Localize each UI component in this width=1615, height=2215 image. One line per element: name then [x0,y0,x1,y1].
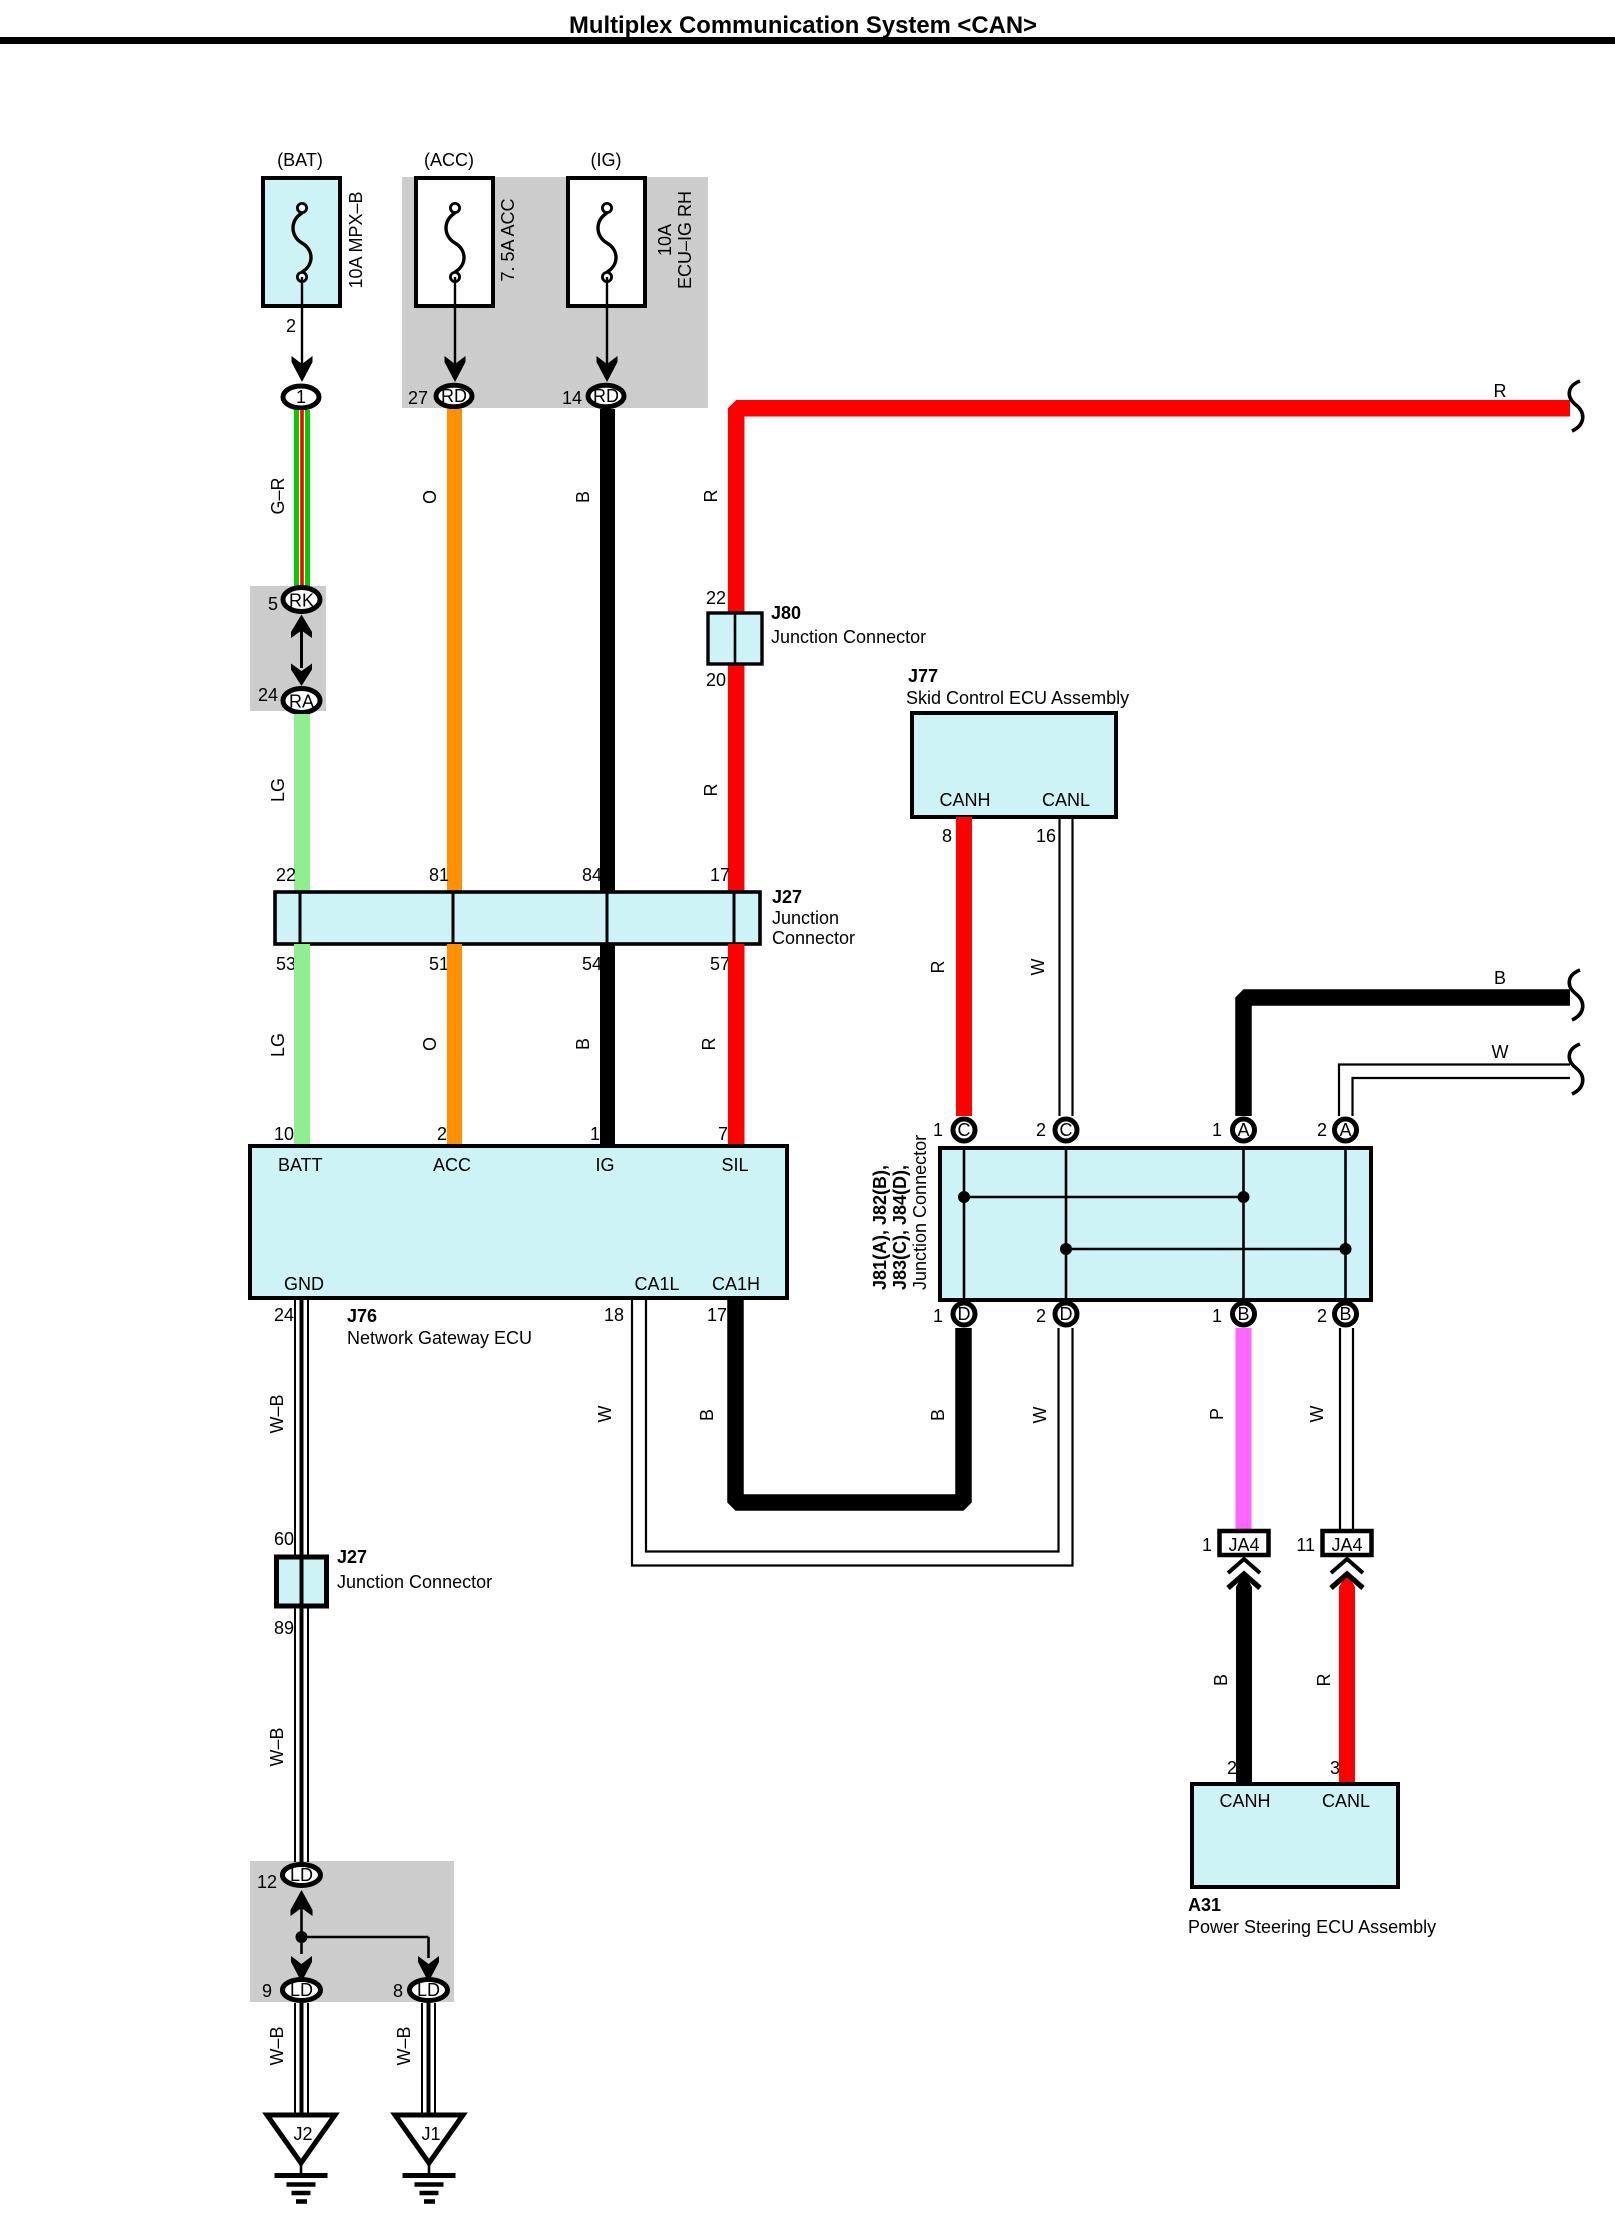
svg-text:18: 18 [604,1305,624,1325]
J27 bar divider at B wire [606,892,609,944]
svg-text:R: R [701,490,721,503]
ground J1 symbol [428,2163,431,2175]
svg-text:Skid Control ECU Assembly: Skid Control ECU Assembly [906,688,1129,708]
terminal LD oval (right) [410,1980,448,2001]
splice arrows between RK and RA [291,615,312,639]
gray block RK/RA [250,586,326,711]
svg-text:CANL: CANL [1042,790,1090,810]
wire B bar to J76 [600,944,615,1146]
terminal RK oval [283,588,320,612]
svg-text:W–B: W–B [267,1394,287,1433]
svg-text:10: 10 [274,1124,294,1144]
svg-text:Junction Connector: Junction Connector [337,1572,492,1592]
svg-text:ECU–IG RH: ECU–IG RH [675,191,695,289]
internal wire C2-D2 [1065,1148,1068,1300]
ECU J77 box [912,713,1116,817]
svg-text:R: R [701,784,721,797]
svg-text:10A: 10A [655,224,675,256]
fuse BAT symbol [293,213,311,272]
svg-text:J80: J80 [771,603,801,623]
internal wire A2-B2 [1344,1148,1347,1300]
svg-text:(BAT): (BAT) [277,150,323,170]
splice arrow down into LD 9 [291,1956,312,1982]
connector JA4 (left) box [1220,1531,1269,1555]
svg-text:B: B [697,1409,717,1421]
gray block LD splice [250,1861,454,2002]
svg-text:9: 9 [262,1981,272,2001]
wire fuse IG to terminal 14 [606,277,608,372]
svg-text:C: C [1060,1120,1073,1140]
svg-text:24: 24 [274,1305,294,1325]
svg-text:W: W [1030,1407,1050,1424]
svg-text:SIL: SIL [721,1155,748,1175]
svg-text:17: 17 [707,1305,727,1325]
break squiggle red wire [1569,381,1582,431]
J27 bar divider at O wire [452,892,455,944]
wire W-B from J76 GND down [295,1298,308,1862]
svg-text:J27: J27 [337,1547,367,1567]
break squiggle white wire [1569,1044,1582,1094]
svg-text:8: 8 [393,1981,403,2001]
svg-text:2: 2 [437,1124,447,1144]
svg-text:LG: LG [268,1033,288,1057]
svg-text:R: R [928,961,948,974]
svg-text:10A MPX–B: 10A MPX–B [346,191,366,288]
svg-text:Power Steering ECU Assembly: Power Steering ECU Assembly [1188,1917,1436,1937]
svg-text:CANH: CANH [1219,1791,1270,1811]
svg-text:22: 22 [706,588,726,608]
splice arrow up into LD [291,1890,313,1916]
svg-text:1: 1 [933,1120,943,1140]
svg-text:22: 22 [276,865,296,885]
svg-text:P: P [1207,1408,1227,1420]
svg-text:20: 20 [706,670,726,690]
fuse ACC box [416,178,493,306]
svg-text:(IG): (IG) [591,150,622,170]
svg-text:81: 81 [429,865,449,885]
svg-text:57: 57 [710,954,730,974]
junction connector J27 bar [275,892,760,944]
svg-text:CANH: CANH [939,790,990,810]
svg-text:Connector: Connector [772,928,855,948]
terminal A2 circle [1335,1119,1357,1141]
svg-text:1: 1 [296,387,306,407]
svg-text:B: B [1339,1304,1351,1324]
svg-text:W: W [1028,959,1048,976]
svg-text:16: 16 [1036,826,1056,846]
svg-text:B: B [1494,968,1506,988]
svg-text:12: 12 [257,1872,277,1892]
svg-text:5: 5 [268,594,278,614]
ECU J76 box [250,1146,787,1298]
terminal C2 circle [1055,1119,1077,1141]
svg-text:JA4: JA4 [1228,1535,1259,1555]
svg-text:RA: RA [289,692,314,712]
svg-text:CA1H: CA1H [712,1274,760,1294]
internal bus C1 to A1 [964,1196,1244,1199]
svg-text:51: 51 [429,954,449,974]
svg-text:CA1L: CA1L [634,1274,679,1294]
svg-text:Junction Connector: Junction Connector [771,627,926,647]
wire W J77 CANL to C2 [1060,817,1073,1116]
wire R JA4 to A31 CANL [1339,1572,1355,1784]
svg-text:G–R: G–R [268,477,288,514]
svg-text:W: W [1307,1406,1327,1423]
fuse IG box [568,178,645,306]
ground J2 triangle [267,2115,335,2163]
svg-text:7: 7 [718,1124,728,1144]
svg-text:IG: IG [595,1155,614,1175]
gray block behind ACC/IG fuses [402,177,708,408]
svg-text:B: B [1211,1674,1231,1686]
connector JA4 (right) box [1323,1531,1372,1555]
chevrons JA4 right [1331,1559,1363,1573]
svg-text:1: 1 [1212,1120,1222,1140]
svg-text:W: W [1492,1042,1509,1062]
wire R J77 CANH to C1 [956,817,972,1116]
svg-text:J2: J2 [293,2124,312,2144]
arrow into terminal 14 [597,356,618,382]
svg-text:Junction: Junction [772,908,839,928]
arrow into terminal 27 [445,356,466,382]
wire W CA1L loop J76 to D2 [632,1298,1073,1566]
svg-text:11: 11 [1296,1535,1315,1555]
svg-text:24: 24 [258,685,278,705]
svg-text:CANL: CANL [1322,1791,1370,1811]
terminal LD oval (left) [283,1980,321,2001]
wire splice branch right [302,1936,429,1939]
svg-text:Multiplex Communication System: Multiplex Communication System <CAN> [569,12,1037,39]
svg-text:B: B [928,1409,948,1421]
wire R (red) horizontal to right edge [736,408,1570,892]
svg-text:RD: RD [593,386,619,406]
junction connector J27 (small) box [277,1557,327,1606]
svg-text:A: A [1237,1120,1249,1140]
ground J1 triangle [395,2115,463,2163]
wire splice stem [300,1906,303,1954]
wire W-B to ground J2 [295,2003,308,2115]
terminal B2 circle [1335,1303,1357,1325]
svg-text:RK: RK [289,591,314,611]
svg-text:B: B [573,1038,593,1050]
svg-text:J27: J27 [772,887,802,907]
terminal LD oval (upper) [283,1865,321,1886]
svg-text:J1: J1 [421,2124,440,2144]
svg-text:A: A [1339,1120,1351,1140]
wire LG bar to J76 [294,944,310,1146]
svg-text:(ACC): (ACC) [424,150,474,170]
wire R bar to J76 [728,944,745,1146]
svg-text:GND: GND [284,1274,324,1294]
svg-text:D: D [1060,1304,1073,1324]
wire W-B to ground J1 [422,2003,435,2115]
terminal D1 circle [953,1303,975,1325]
svg-text:B: B [573,491,593,503]
wire W from A2 up and right to edge [1339,1065,1570,1117]
terminal RD (ACC) oval [436,385,472,407]
svg-text:J77: J77 [908,666,938,686]
svg-text:8: 8 [942,826,952,846]
chevrons JA4 left [1228,1559,1260,1573]
svg-text:2: 2 [1317,1306,1327,1326]
svg-text:RD: RD [441,386,467,406]
wire B from A1 up and right to edge [1244,998,1571,1117]
svg-text:O: O [420,1037,440,1051]
wire G-R from node 1 to RK [294,410,310,587]
svg-text:W–B: W–B [267,1727,287,1766]
wire B CA1H loop J76 to D1 [736,1298,964,1503]
fuse IG symbol [598,213,616,272]
wire P from B1 to JA4 [1236,1328,1252,1529]
wire B JA4 to A31 CANH [1236,1572,1252,1784]
break squiggle black wire [1569,970,1582,1020]
svg-text:LG: LG [268,778,288,802]
ground J2 symbol [300,2163,303,2175]
svg-text:2: 2 [1036,1306,1046,1326]
svg-text:1: 1 [1202,1535,1212,1555]
svg-text:7. 5A ACC: 7. 5A ACC [498,198,518,281]
wire LG from RA to J27 bar [294,714,310,892]
splice arrow down into LD 8 [418,1956,439,1982]
svg-text:89: 89 [274,1618,294,1638]
node 1 oval [283,386,319,408]
svg-text:2: 2 [1036,1120,1046,1140]
ECU A31 box [1192,1784,1398,1887]
J27 bar divider at LG wire [299,892,302,944]
wire W from B2 to JA4 [1340,1328,1353,1529]
svg-text:3: 3 [1330,1758,1340,1778]
svg-text:J83(C), J84(D),: J83(C), J84(D), [890,1165,910,1290]
svg-text:A31: A31 [1188,1895,1221,1915]
svg-text:LD: LD [290,1980,313,2000]
internal bus C2 to A2 [1066,1248,1346,1251]
svg-text:JA4: JA4 [1331,1535,1362,1555]
svg-text:2: 2 [286,316,296,336]
svg-text:J81(A), J82(B),: J81(A), J82(B), [870,1165,890,1290]
svg-text:2: 2 [1227,1758,1237,1778]
svg-text:LD: LD [290,1865,313,1885]
svg-text:Junction Connector: Junction Connector [910,1135,930,1290]
fuse BAT box [263,178,340,306]
splice junction dot [296,1931,308,1943]
svg-text:C: C [958,1120,971,1140]
wire fuse ACC to terminal 27 [454,277,456,372]
junction connector J80 box [708,613,762,664]
terminal RA oval [283,689,320,713]
svg-text:14: 14 [562,388,582,408]
wire B (black) fuse IG to J27 bar [600,409,615,892]
junction connector J81-J84 box [940,1148,1371,1300]
svg-text:1: 1 [1212,1306,1222,1326]
svg-text:W–B: W–B [267,2026,287,2065]
terminal B1 circle [1233,1303,1255,1325]
title rule [0,37,1615,44]
svg-text:54: 54 [582,954,602,974]
svg-text:1: 1 [933,1306,943,1326]
arrow into node 1 [292,356,313,382]
svg-text:J76: J76 [347,1306,377,1326]
svg-text:53: 53 [276,954,296,974]
svg-text:W–B: W–B [394,2026,414,2065]
wire O (orange) fuse ACC to J27 bar [447,409,462,892]
wire fuse BAT to node 1 [301,277,303,372]
J27 bar divider at R wire [733,892,736,944]
terminal A1 circle [1233,1119,1255,1141]
svg-text:R: R [1494,381,1507,401]
svg-text:W: W [595,1406,615,1423]
terminal D2 circle [1055,1303,1077,1325]
terminal C1 circle [953,1119,975,1141]
svg-text:BATT: BATT [278,1155,323,1175]
svg-text:Network Gateway ECU: Network Gateway ECU [347,1328,532,1348]
internal wire C1-D1 [963,1148,966,1300]
internal wire A1-B1 [1242,1148,1245,1300]
svg-text:R: R [1314,1674,1334,1687]
fuse ACC symbol [446,213,464,272]
svg-text:27: 27 [408,388,428,408]
svg-text:B: B [1237,1304,1249,1324]
svg-text:D: D [958,1304,971,1324]
svg-text:2: 2 [1317,1120,1327,1140]
wire O bar to J76 [447,944,462,1146]
svg-text:LD: LD [417,1980,440,2000]
terminal RD (IG) oval [588,385,624,407]
svg-text:60: 60 [274,1529,294,1549]
svg-text:ACC: ACC [433,1155,471,1175]
svg-text:R: R [699,1038,719,1051]
svg-text:84: 84 [582,865,602,885]
svg-text:1: 1 [590,1124,600,1144]
svg-text:17: 17 [710,865,730,885]
svg-text:O: O [420,490,440,504]
